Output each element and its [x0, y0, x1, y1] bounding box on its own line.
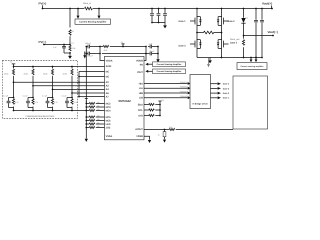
svg-text:Current sensing amplifier: Current sensing amplifier [241, 65, 264, 68]
svg-text:DIO: DIO [139, 114, 143, 117]
svg-text:Rsen_in: Rsen_in [83, 2, 92, 5]
ground bridge [208, 58, 212, 64]
resistor R22 capacitor C22 [28, 86, 33, 111]
ground bulk caps [163, 23, 167, 29]
svg-text:1k: 1k [158, 133, 160, 136]
svg-text:Vout(+): Vout(+) [262, 2, 272, 6]
transistor Q4 Gate4 [221, 33, 223, 40]
svg-text:0.1 µF: 0.1 µF [42, 95, 48, 98]
wire gate2 out [211, 92, 218, 94]
resistor R13 [52, 66, 54, 68]
resistor R4 [103, 45, 109, 47]
transistor Q2 Gate2 [221, 8, 223, 10]
wire switch node [197, 32, 222, 34]
svg-text:PWM3(H): PWM3(H) [180, 90, 189, 93]
capacitor C3 bulk [158, 8, 160, 10]
wire gate4 out [211, 83, 218, 85]
svg-text:Current Sensing Amplifier: Current Sensing Amplifier [157, 70, 182, 73]
wire AIOUT feedback line [144, 129, 233, 131]
capacitor C7 [88, 45, 89, 49]
wire config bottom bus [14, 110, 87, 112]
capacitor C8 [150, 45, 151, 49]
node rail junction x70 [69, 8, 71, 10]
resistor R14 [71, 66, 73, 68]
wire low-side source rail [197, 57, 262, 59]
diode D1 [243, 8, 245, 10]
wire pin line NC2 [79, 76, 105, 78]
op-amp U2 current sensing amplifier input box [75, 19, 111, 24]
capacitor C9 [88, 52, 89, 56]
svg-text:10k: 10k [97, 101, 100, 104]
ground PV(-) [68, 53, 72, 59]
wire pull resistor row2 [144, 109, 160, 111]
resistor R41 inline [169, 128, 175, 130]
svg-text:IIN: IIN [140, 63, 143, 66]
wire PWM1 [144, 83, 188, 85]
svg-text:PWM2(L): PWM2(L) [180, 86, 188, 89]
svg-text:Vout(−): Vout(−) [268, 30, 278, 34]
svg-text:Gate 1: Gate 1 [179, 20, 187, 23]
capacitor C2 bulk [151, 8, 153, 10]
svg-text:4.7k: 4.7k [15, 101, 18, 104]
wire CSA3 tap from Vout- [255, 57, 257, 59]
svg-text:49.9k: 49.9k [4, 72, 8, 75]
wire VDDA left riser [99, 46, 101, 48]
svg-text:VDDA: VDDA [106, 59, 113, 62]
wire IIN pull resistor row1 [144, 104, 160, 106]
node PV(+) terminal [42, 5, 44, 8]
svg-text:LIA: LIA [139, 87, 143, 90]
capacitor C1 input [63, 44, 65, 46]
resistor R36 [85, 123, 87, 125]
resistor R11 [13, 66, 15, 68]
svg-text:10 µF: 10 µF [150, 50, 156, 53]
svg-text:CONFIGURATION RESISTORS: CONFIGURATION RESISTORS [26, 115, 55, 118]
wire driver supply arrow [207, 58, 210, 67]
svg-text:SCL: SCL [138, 109, 143, 112]
svg-text:Current Sensing Amplifier: Current Sensing Amplifier [79, 21, 106, 24]
wire Vout(-) line [244, 35, 274, 37]
capacitor C6 output [261, 8, 263, 10]
resistor R34 [85, 116, 87, 118]
svg-text:49.9k: 49.9k [63, 72, 67, 75]
op-amp U3b current sensing amplifier [153, 69, 186, 74]
svg-text:10k: 10k [149, 113, 152, 116]
svg-text:10k: 10k [97, 125, 100, 128]
svg-text:Gate 2: Gate 2 [223, 92, 230, 95]
node Vout(+) terminal [271, 6, 273, 9]
node PV(-) terminal [43, 44, 45, 46]
svg-text:Gate 1: Gate 1 [223, 97, 230, 100]
wire top rail left [43, 8, 85, 10]
svg-text:VSSB: VSSB [136, 135, 143, 138]
wire pin line A7 [72, 92, 105, 94]
resistor R42 to ground [164, 129, 166, 131]
svg-text:D1: D1 [246, 17, 248, 20]
svg-text:4.7k: 4.7k [74, 101, 77, 104]
resistor Rsen_in [85, 7, 93, 10]
svg-text:10k: 10k [149, 102, 152, 105]
svg-text:10k: 10k [72, 47, 75, 50]
svg-text:Current Sensing Amplifier: Current Sensing Amplifier [157, 63, 182, 66]
svg-text:PV(+): PV(+) [39, 2, 47, 6]
wire gate1 out [211, 97, 218, 99]
svg-text:NC: NC [106, 70, 110, 73]
svg-text:SM72442: SM72442 [118, 99, 131, 103]
svg-text:HIA: HIA [139, 82, 143, 85]
svg-text:Gate 4: Gate 4 [223, 83, 230, 86]
resistor R31 [85, 103, 87, 105]
svg-text:10k: 10k [97, 122, 100, 125]
wire supply left vertical with arrow [85, 46, 87, 48]
svg-text:0.1 µF: 0.1 µF [62, 95, 68, 98]
svg-text:Gate 2: Gate 2 [228, 20, 236, 23]
svg-text:PWM4(L): PWM4(L) [180, 95, 188, 98]
wire top rail right [93, 8, 272, 10]
svg-text:49.9k: 49.9k [24, 72, 28, 75]
resistor R12 [32, 66, 34, 68]
wire pin line A6 [53, 88, 105, 90]
resistor R32 [85, 106, 87, 108]
wire PWM2 [144, 87, 188, 89]
resistor R24 capacitor C24 [67, 93, 72, 111]
ground supply right [156, 59, 159, 62]
transistor Q1 Gate1 [196, 8, 198, 10]
wire config rail [14, 66, 105, 68]
svg-text:49.9k: 49.9k [43, 72, 47, 75]
wire analog bus vertical [85, 59, 87, 139]
svg-text:Gate 3: Gate 3 [223, 87, 230, 90]
wire PWM4 [144, 97, 188, 99]
resistor R33 [85, 110, 87, 112]
svg-text:VDDB: VDDB [136, 59, 143, 62]
wire PWM3 [144, 92, 188, 94]
wire VDDA right riser [145, 46, 147, 48]
svg-text:AVIN: AVIN [106, 65, 112, 68]
op-amp U4 current sensing amplifier output box [237, 63, 267, 70]
svg-text:10k: 10k [97, 115, 100, 118]
svg-text:PWM1(H): PWM1(H) [180, 81, 189, 84]
svg-text:10k: 10k [149, 107, 152, 110]
wire pin line A2 [14, 81, 105, 83]
svg-text:0.1 µF: 0.1 µF [23, 95, 29, 98]
wire supply right vertical [157, 46, 159, 48]
driver U5 H-Bridge Driver box [190, 75, 211, 109]
svg-text:Rsen_out: Rsen_out [230, 38, 240, 41]
svg-text:VSSA: VSSA [106, 135, 113, 138]
wire pin line A0 [79, 72, 105, 97]
svg-text:49.9: 49.9 [104, 49, 108, 52]
svg-text:4.7k: 4.7k [54, 101, 57, 104]
wire pin line A4 [33, 85, 105, 87]
wire CSA3 tap from source rail [250, 57, 252, 59]
transistor Q3 Gate3 [196, 33, 198, 40]
svg-text:PV(−): PV(−) [39, 40, 47, 44]
svg-text:10k: 10k [97, 118, 100, 121]
ground analog bus [85, 110, 87, 112]
wire pin line NC1 [79, 71, 105, 73]
resistor R23 capacitor C23 [48, 89, 53, 110]
dashed configuration box [3, 60, 78, 118]
svg-text:SDA: SDA [138, 103, 143, 106]
wire gate3 out [211, 87, 218, 89]
wire sense tap right [98, 8, 100, 10]
capacitor C5 output [255, 8, 257, 10]
block SM72295 outline box [233, 76, 268, 129]
resistor R35 [85, 120, 87, 122]
svg-text:AIOUT: AIOUT [135, 128, 143, 131]
svg-text:NC: NC [106, 75, 110, 78]
resistor R2 divider top [69, 9, 71, 28]
svg-text:2.2 µF: 2.2 µF [88, 54, 94, 57]
svg-text:HIB: HIB [139, 92, 143, 95]
svg-text:0.1 µF: 0.1 µF [3, 95, 9, 98]
capacitor C10 [150, 52, 151, 56]
resistor Rsen_out [243, 35, 245, 37]
IC U1 SM72442 [105, 56, 145, 139]
svg-text:JO3: JO3 [106, 126, 111, 129]
IC pin labels left [106, 59, 113, 138]
wire cap bottoms [152, 22, 165, 24]
svg-text:LIB: LIB [139, 97, 143, 100]
wire cap-res bottom [64, 52, 70, 54]
wire supply line A [86, 46, 158, 48]
node supply tap [122, 46, 124, 48]
resistor R21 capacitor C21 [9, 82, 14, 110]
svg-text:10k: 10k [97, 108, 100, 111]
svg-text:Gate 4: Gate 4 [230, 42, 238, 45]
inductor L1 [204, 31, 214, 34]
svg-text:NC4: NC4 [106, 109, 112, 112]
wire supply line B [86, 53, 158, 55]
wire PV(-) to node [44, 44, 70, 46]
op-amp U3a current sensing amplifier [153, 62, 186, 67]
svg-text:10k: 10k [97, 105, 100, 108]
svg-text:4.7k: 4.7k [35, 101, 38, 104]
svg-text:IOUT: IOUT [137, 71, 143, 74]
wire VSSB to ground [144, 136, 150, 140]
capacitor C4 bulk [164, 8, 166, 10]
node config rail supply [12, 64, 16, 67]
svg-text:100 µF: 100 µF [85, 42, 92, 45]
wire pull-up bus [158, 101, 161, 116]
wire sense tap left [77, 8, 79, 10]
wire pull resistor row3 [144, 115, 160, 117]
IC pin labels right [135, 59, 143, 138]
svg-text:H-Bridge Driver: H-Bridge Driver [193, 103, 209, 106]
svg-text:Gate 3: Gate 3 [179, 44, 187, 47]
resistor R3 [69, 44, 71, 47]
resistor R37 [85, 127, 87, 129]
